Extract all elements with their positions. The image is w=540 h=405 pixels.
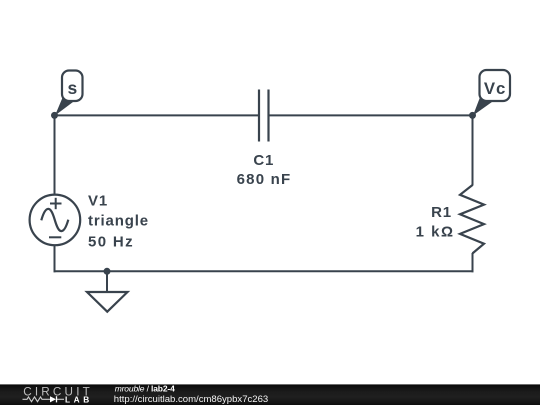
wire bottom rail [54,270,474,272]
svg-text:R1: R1 [431,204,452,221]
capacitor C1 [259,90,269,142]
node Vc flag pointer [473,97,493,116]
svg-text:680 nF: 680 nF [237,171,292,188]
svg-text:C1: C1 [253,152,274,169]
ground [87,292,128,312]
wire top left (node s to C1 left plate) [55,114,259,116]
svg-text:1 kΩ: 1 kΩ [416,224,455,241]
svg-text:Vc: Vc [484,79,506,98]
wire left vertical (node s down to V1 top) [54,114,56,195]
resistor R1 [460,185,484,253]
V1 plus sign [50,198,62,209]
node s flag pointer [55,97,74,116]
node s flag box [62,71,83,102]
node junction dot (ground) [104,268,111,275]
node junction dot (s) [51,112,58,119]
V1 sine wave [41,209,68,231]
node junction dot (Vc) [469,112,476,119]
svg-text:50 Hz: 50 Hz [88,233,134,250]
wire right vertical top (node Vc down to R1) [472,114,474,185]
V1 minus sign [49,236,61,238]
footer bar [0,384,540,405]
wire right vertical bottom (R1 to bottom rail) [472,253,474,272]
svg-text:http://circuitlab.com/cm86ypbx: http://circuitlab.com/cm86ypbx7c263 [114,394,268,405]
logo resistor squiggle [23,397,48,402]
svg-text:LAB: LAB [65,394,93,404]
wire ground stub [106,271,108,292]
logo diode [50,396,56,402]
svg-text:V1: V1 [88,192,108,209]
svg-text:s: s [68,78,78,98]
node Vc flag box [480,70,511,101]
wire V1 bottom to bottom rail [54,245,56,272]
voltage source V1 circle [30,195,81,246]
svg-text:triangle: triangle [88,213,149,230]
svg-text:mrouble / lab2-4: mrouble / lab2-4 [115,384,175,394]
wire top right (C1 right plate to node Vc) [269,114,473,116]
